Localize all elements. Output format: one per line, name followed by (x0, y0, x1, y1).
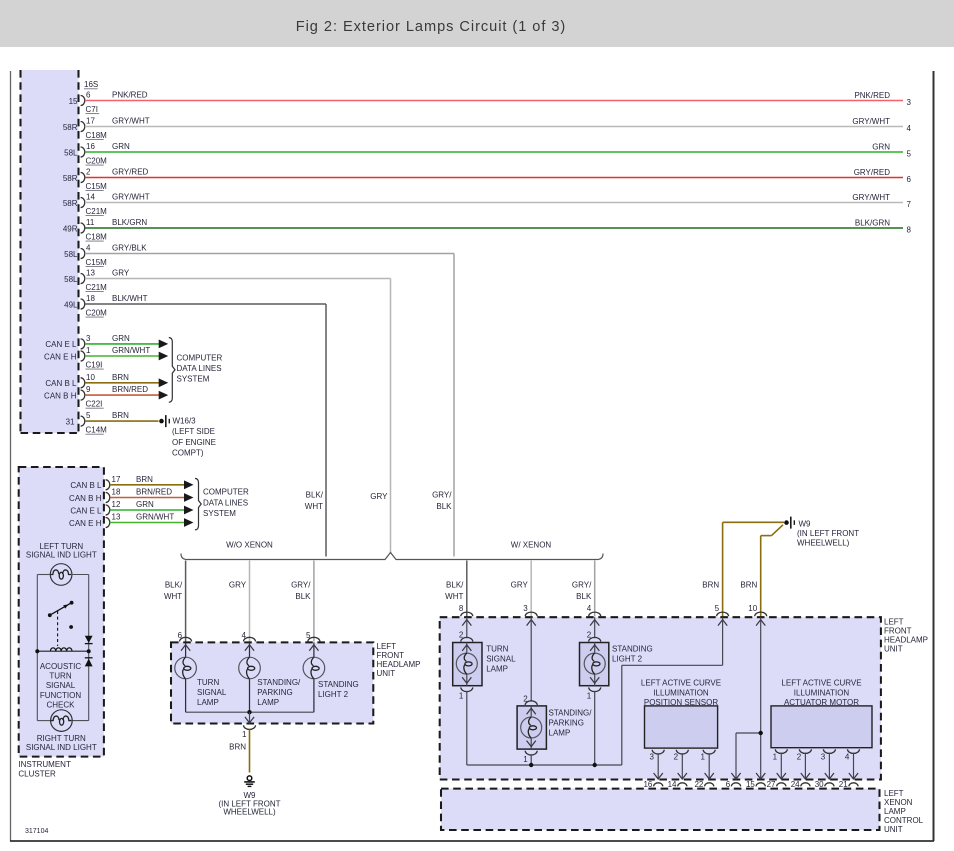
ground bus inside left headlamp (186, 711, 314, 713)
svg-text:10: 10 (748, 604, 757, 613)
svg-text:BLK: BLK (576, 592, 592, 601)
svg-text:5: 5 (306, 631, 311, 640)
svg-text:SIGNAL: SIGNAL (46, 681, 76, 690)
svg-text:GRY/: GRY/ (291, 581, 311, 590)
wire BRN pin 10 node CAN B L (45, 373, 168, 388)
wire PNK/RED pin 6 (15) connector C7I (69, 90, 912, 114)
svg-text:49R: 49R (63, 224, 78, 233)
diode D2 (85, 658, 93, 667)
svg-text:14: 14 (86, 192, 95, 201)
svg-text:CLUSTER: CLUSTER (18, 769, 56, 778)
svg-text:GRN: GRN (136, 500, 154, 509)
svg-text:17: 17 (86, 116, 95, 125)
actuator motor pin 3 wire (821, 749, 836, 779)
pin 10 of xenon headlamp unit (748, 604, 766, 626)
svg-text:LAMP: LAMP (257, 698, 279, 707)
pin 4 of xenon headlamp unit (587, 604, 601, 626)
svg-text:2: 2 (587, 630, 592, 639)
svg-text:GRN: GRN (112, 142, 130, 151)
pin 5 of left headlamp unit (306, 631, 320, 642)
svg-text:TURN: TURN (486, 645, 508, 654)
svg-text:6: 6 (86, 90, 91, 99)
position sensor pin 1 wire (701, 750, 716, 780)
pin 3 of xenon headlamp unit (523, 604, 537, 626)
wire GRY/BLK vertical drop to xenon split (432, 254, 454, 557)
svg-text:GRY/WHT: GRY/WHT (112, 116, 150, 125)
svg-text:13: 13 (86, 268, 95, 277)
connector 16S label (84, 80, 98, 89)
turn signal lamp (xenon headlamp) (453, 617, 516, 701)
svg-text:BLK: BLK (295, 592, 311, 601)
svg-text:ILLUMINATION: ILLUMINATION (653, 689, 709, 698)
svg-text:CONTROL: CONTROL (884, 816, 924, 825)
svg-text:C7I: C7I (86, 105, 98, 114)
svg-text:58R: 58R (63, 174, 78, 183)
svg-text:SIGNAL IND LIGHT: SIGNAL IND LIGHT (26, 743, 97, 752)
svg-text:GRY/: GRY/ (572, 581, 592, 590)
xenon control unit pin 14 (668, 780, 687, 789)
svg-text:XENON: XENON (884, 798, 913, 807)
xenon control unit pin 30 (815, 780, 834, 789)
svg-text:LEFT: LEFT (884, 789, 904, 798)
svg-text:STANDING: STANDING (612, 645, 653, 654)
svg-text:C15M: C15M (86, 258, 108, 267)
junction (593, 763, 597, 767)
svg-text:WHT: WHT (164, 592, 182, 601)
cluster wire GRN pin 12 node CAN E L (70, 500, 193, 515)
svg-text:C14M: C14M (86, 426, 108, 435)
wire GRY/WHT pin 14 (58R) connector C21M (63, 192, 912, 216)
svg-text:16: 16 (86, 142, 95, 151)
svg-text:INSTRUMENT: INSTRUMENT (18, 760, 71, 769)
svg-text:3: 3 (650, 752, 655, 761)
lamp labels (left headlamp) (197, 678, 359, 707)
svg-text:16S: 16S (84, 80, 98, 89)
svg-text:PARKING: PARKING (549, 719, 584, 728)
junction (529, 763, 533, 767)
svg-text:LIGHT 2: LIGHT 2 (318, 690, 349, 699)
svg-text:BLK/WHT: BLK/WHT (112, 294, 148, 303)
svg-text:COMPUTER: COMPUTER (177, 354, 223, 363)
svg-text:WHEELWELL): WHEELWELL) (797, 539, 850, 548)
pin 1 of left headlamp unit (242, 712, 255, 739)
svg-text:FRONT: FRONT (884, 626, 912, 635)
svg-text:C20M: C20M (86, 156, 108, 165)
wire GRY/WHT pin 17 (58R) connector C18M (63, 116, 912, 140)
svg-text:DATA LINES: DATA LINES (177, 364, 222, 373)
svg-text:LIGHT 2: LIGHT 2 (612, 654, 643, 663)
standing/parking lamp (xenon headlamp) (517, 617, 592, 764)
svg-text:1: 1 (701, 752, 706, 761)
ground point W16/3 (159, 415, 216, 457)
left xenon lamp control unit body (441, 789, 924, 835)
svg-text:BLK/GRN: BLK/GRN (855, 218, 890, 227)
cluster internal circuit wires (37, 575, 88, 721)
wire GRY pin 13 (58L) connector C21M (64, 268, 390, 292)
actuator motor pin 1 wire (773, 749, 788, 779)
svg-text:17: 17 (112, 475, 121, 484)
svg-text:GRN: GRN (112, 334, 130, 343)
standing light 2 (left headlamp, w/o xenon) (303, 642, 325, 712)
svg-text:58R: 58R (63, 199, 78, 208)
position sensor pin 2 wire (674, 750, 689, 780)
svg-text:BLK: BLK (436, 502, 452, 511)
turn signal switch (48, 601, 74, 646)
wire from turn signal lamp to ground bus (466, 691, 468, 765)
svg-text:FUNCTION: FUNCTION (40, 691, 82, 700)
svg-text:9: 9 (86, 385, 91, 394)
svg-text:3: 3 (821, 752, 826, 761)
svg-text:GRY/WHT: GRY/WHT (852, 193, 890, 202)
wire GRY/BLK to left headlamp (w/o xenon) (291, 561, 314, 642)
svg-text:UNIT: UNIT (884, 825, 903, 834)
wire BLK/WHT to left headlamp (w/o xenon) (164, 561, 186, 642)
svg-text:5: 5 (715, 604, 720, 613)
svg-text:2: 2 (674, 752, 679, 761)
svg-text:LEFT: LEFT (884, 617, 904, 626)
wire BLK/WHT pin 18 (49L) connector C20M (64, 294, 326, 318)
xenon control unit pin 24 (791, 780, 810, 789)
svg-text:2: 2 (86, 167, 91, 176)
svg-text:TURN: TURN (49, 672, 71, 681)
right turn signal indicator lamp (26, 710, 97, 752)
svg-text:1: 1 (86, 346, 91, 355)
svg-text:LAMP: LAMP (884, 807, 906, 816)
svg-text:CAN E H: CAN E H (69, 519, 102, 528)
wire GRY to xenon headlamp (w/ xenon) (511, 561, 532, 617)
svg-text:LEFT TURN: LEFT TURN (39, 542, 83, 551)
svg-text:W9: W9 (799, 519, 812, 528)
svg-text:FRONT: FRONT (377, 651, 405, 660)
cluster wire BRN/RED pin 18 node CAN B H (69, 488, 193, 503)
svg-text:CAN E H: CAN E H (44, 352, 77, 361)
svg-text:GRY: GRY (370, 492, 388, 501)
svg-text:1: 1 (242, 730, 247, 739)
left front headlamp unit body (w/o xenon) (171, 642, 421, 724)
svg-text:CAN B L: CAN B L (70, 481, 102, 490)
left active curve illumination actuator motor (771, 679, 872, 748)
position sensor pin 3 wire (650, 750, 665, 780)
junction (247, 710, 251, 714)
svg-text:2: 2 (523, 694, 528, 703)
svg-text:BRN: BRN (229, 742, 246, 751)
left front headlamp unit body (w/ xenon) (440, 617, 928, 779)
svg-text:3: 3 (523, 604, 528, 613)
svg-text:BRN/RED: BRN/RED (112, 385, 148, 394)
svg-text:6: 6 (907, 175, 912, 184)
wire BRN to ground W9 (229, 730, 249, 773)
instrument cluster body (18, 467, 103, 778)
svg-text:GRY/BLK: GRY/BLK (112, 243, 147, 252)
svg-text:LEFT: LEFT (377, 642, 397, 651)
svg-text:7: 7 (907, 200, 912, 209)
svg-text:SYSTEM: SYSTEM (177, 374, 210, 383)
wire GRN/WHT pin 1 node CAN E H (44, 346, 168, 369)
svg-text:58R: 58R (63, 123, 78, 132)
svg-text:WHEELWELL): WHEELWELL) (223, 807, 276, 816)
svg-text:BLK/: BLK/ (165, 581, 183, 590)
svg-text:5: 5 (907, 149, 912, 158)
ground symbol W9 (in left front wheelwell) (218, 776, 280, 817)
junction (759, 731, 763, 735)
svg-text:BLK/GRN: BLK/GRN (112, 218, 147, 227)
svg-text:COMPUTER: COMPUTER (203, 488, 249, 497)
svg-text:3: 3 (907, 98, 912, 107)
relay coil (acoustic check) (35, 648, 90, 710)
xenon control unit pin 22 (694, 780, 713, 789)
svg-text:C21M: C21M (86, 207, 108, 216)
svg-text:POSITION SENSOR: POSITION SENSOR (644, 698, 718, 707)
wire from standing light 2 to ground bus (594, 691, 596, 765)
svg-text:LAMP: LAMP (549, 728, 571, 737)
svg-text:1: 1 (773, 752, 778, 761)
cluster wire GRN/WHT pin 13 node CAN E H (69, 513, 193, 528)
svg-text:GRN: GRN (872, 142, 890, 151)
svg-text:LAMP: LAMP (197, 698, 219, 707)
actuator motor pin 2 wire (797, 749, 812, 779)
svg-text:COMPT): COMPT) (172, 448, 204, 457)
svg-text:HEADLAMP: HEADLAMP (377, 660, 421, 669)
svg-text:CAN B H: CAN B H (69, 494, 102, 503)
wire GRY/BLK to xenon headlamp (w/ xenon) (572, 561, 595, 617)
svg-text:SIGNAL: SIGNAL (197, 688, 227, 697)
svg-text:CAN B H: CAN B H (44, 391, 77, 400)
svg-text:C21M: C21M (86, 283, 108, 292)
standing light 2 (xenon headlamp) (580, 617, 653, 701)
svg-text:GRY/RED: GRY/RED (112, 167, 149, 176)
computer data lines brace (cluster) (195, 478, 249, 529)
wire GRY/BLK pin 4 (58L) connector C15M (64, 243, 454, 267)
xenon control unit pin 16 (643, 780, 662, 789)
wire from standing/parking lamp to ground bus (530, 754, 532, 765)
xenon option split bracket (181, 540, 603, 559)
svg-text:C15M: C15M (86, 182, 108, 191)
svg-text:1: 1 (523, 755, 528, 764)
svg-text:GRY/: GRY/ (432, 491, 452, 500)
left turn signal indicator lamp (26, 542, 97, 586)
svg-text:SIGNAL IND LIGHT: SIGNAL IND LIGHT (26, 551, 97, 560)
svg-text:18: 18 (112, 488, 121, 497)
actuator motor pin 4 wire (845, 749, 860, 779)
svg-text:BRN: BRN (740, 581, 757, 590)
wire GRY vertical drop to xenon split (370, 279, 390, 554)
connector block (fuse/relay module) body (21, 70, 79, 433)
wire GRY to left headlamp (w/o xenon) (229, 561, 250, 642)
svg-text:C20M: C20M (86, 308, 108, 317)
svg-text:OF ENGINE: OF ENGINE (172, 438, 216, 447)
xenon control unit pin 27 (767, 780, 786, 789)
svg-text:18: 18 (86, 294, 95, 303)
svg-text:STANDING: STANDING (318, 680, 359, 689)
svg-text:C22I: C22I (86, 400, 103, 409)
svg-text:5: 5 (86, 411, 91, 420)
wire GRN pin 3 node CAN E L (45, 334, 168, 349)
svg-text:1: 1 (587, 692, 592, 701)
svg-text:ACOUSTIC: ACOUSTIC (40, 662, 82, 671)
svg-text:C19I: C19I (86, 360, 103, 369)
svg-text:317104: 317104 (25, 828, 48, 835)
svg-text:BLK/: BLK/ (446, 581, 464, 590)
svg-text:GRY: GRY (112, 268, 130, 277)
pin 6 of left headlamp unit (178, 631, 192, 642)
svg-text:58L: 58L (64, 148, 78, 157)
svg-text:31: 31 (66, 417, 75, 426)
svg-text:BRN/RED: BRN/RED (136, 488, 172, 497)
svg-text:STANDING/: STANDING/ (549, 709, 593, 718)
wire BRN pin 5 to ground W9 (702, 522, 784, 616)
svg-text:PARKING: PARKING (257, 688, 292, 697)
svg-text:SYSTEM: SYSTEM (203, 509, 236, 518)
svg-text:BLK/: BLK/ (306, 491, 324, 500)
svg-text:4: 4 (907, 124, 912, 133)
wire BLK/GRN pin 11 (49R) connector C18M (63, 218, 912, 242)
svg-text:ACTUATOR MOTOR: ACTUATOR MOTOR (784, 698, 859, 707)
cluster wire BRN pin 17 node CAN B L (70, 475, 193, 490)
svg-text:C18M: C18M (86, 131, 108, 140)
svg-text:W/O XENON: W/O XENON (226, 540, 273, 549)
svg-text:TURN: TURN (197, 678, 219, 687)
svg-text:Fig 2: Exterior Lamps Circuit: Fig 2: Exterior Lamps Circuit (1 of 3) (296, 19, 566, 35)
svg-text:CAN E L: CAN E L (70, 506, 102, 515)
svg-text:WHT: WHT (305, 502, 323, 511)
svg-text:2: 2 (459, 630, 464, 639)
xenon control unit pin 6 (726, 780, 741, 789)
svg-text:UNIT: UNIT (377, 669, 396, 678)
wire BLK/WHT to xenon headlamp (w/ xenon) (445, 561, 467, 617)
svg-text:8: 8 (459, 604, 464, 613)
xenon control unit pin 21 (839, 780, 858, 789)
svg-text:58L: 58L (64, 275, 78, 284)
svg-text:CAN E L: CAN E L (45, 340, 77, 349)
svg-text:3: 3 (86, 334, 91, 343)
svg-text:CAN B L: CAN B L (45, 379, 77, 388)
svg-text:SIGNAL: SIGNAL (486, 654, 516, 663)
wire GRY/RED pin 2 (58R) connector C15M (63, 167, 912, 191)
svg-text:UNIT: UNIT (884, 644, 903, 653)
turn signal lamp (left headlamp, w/o xenon) (175, 642, 197, 712)
wire BRN pin 5 terminal 31 connector C14M (66, 411, 159, 434)
svg-text:BRN: BRN (702, 581, 719, 590)
svg-text:GRY: GRY (511, 581, 529, 590)
svg-text:C18M: C18M (86, 232, 108, 241)
svg-text:GRY/WHT: GRY/WHT (852, 117, 890, 126)
svg-text:GRN/WHT: GRN/WHT (112, 346, 150, 355)
wire pin 10 to bottom pins 6 and 15 (731, 617, 765, 779)
svg-text:ILLUMINATION: ILLUMINATION (794, 689, 850, 698)
svg-text:6: 6 (178, 631, 183, 640)
computer data lines brace (upper) (169, 338, 223, 403)
svg-text:STANDING/: STANDING/ (257, 678, 301, 687)
svg-text:58L: 58L (64, 250, 78, 259)
svg-text:BRN: BRN (136, 475, 153, 484)
svg-text:W16/3: W16/3 (173, 417, 197, 426)
svg-text:BRN: BRN (112, 411, 129, 420)
svg-text:WHT: WHT (445, 592, 463, 601)
xenon control unit pin 15 (746, 780, 765, 789)
svg-text:12: 12 (112, 500, 121, 509)
wire BRN pin 10 to ground W9 (740, 525, 783, 617)
svg-text:15: 15 (69, 97, 78, 106)
ground point W9 (in left front wheelwell) (784, 517, 859, 548)
svg-text:GRY/RED: GRY/RED (854, 168, 891, 177)
svg-text:13: 13 (112, 513, 121, 522)
svg-text:HEADLAMP: HEADLAMP (884, 635, 928, 644)
svg-text:PNK/RED: PNK/RED (854, 91, 890, 100)
svg-text:CHECK: CHECK (46, 700, 75, 709)
svg-text:LEFT ACTIVE CURVE: LEFT ACTIVE CURVE (641, 679, 721, 688)
ground bus inside xenon headlamp to pin 5 (467, 617, 723, 765)
svg-text:GRY: GRY (229, 581, 247, 590)
svg-text:PNK/RED: PNK/RED (112, 90, 148, 99)
svg-text:49L: 49L (64, 300, 78, 309)
wire BLK/WHT vertical drop to xenon split (305, 304, 326, 557)
svg-text:2: 2 (797, 752, 802, 761)
svg-text:GRN/WHT: GRN/WHT (136, 513, 174, 522)
svg-text:4: 4 (86, 243, 91, 252)
svg-text:4: 4 (587, 604, 592, 613)
svg-text:LEFT ACTIVE CURVE: LEFT ACTIVE CURVE (781, 679, 861, 688)
svg-text:W/ XENON: W/ XENON (511, 540, 552, 549)
left active curve illumination position sensor (641, 679, 721, 748)
svg-text:1: 1 (459, 692, 464, 701)
wire GRN pin 16 (58L) connector C20M (64, 142, 911, 166)
svg-text:LAMP: LAMP (486, 664, 508, 673)
svg-text:(LEFT SIDE: (LEFT SIDE (172, 427, 215, 436)
svg-text:11: 11 (86, 218, 95, 227)
pin 8 of xenon headlamp unit (459, 604, 473, 626)
wire BRN/RED pin 9 node CAN B H (44, 385, 168, 408)
diode D1 (85, 636, 93, 644)
svg-text:RIGHT TURN: RIGHT TURN (37, 734, 86, 743)
pin 4 of left headlamp unit (242, 631, 256, 642)
title bar (0, 0, 954, 47)
svg-text:4: 4 (242, 631, 247, 640)
svg-text:8: 8 (907, 225, 912, 234)
svg-text:DATA LINES: DATA LINES (203, 498, 248, 507)
svg-text:GRY/WHT: GRY/WHT (112, 192, 150, 201)
svg-text:(IN LEFT FRONT: (IN LEFT FRONT (797, 529, 859, 538)
svg-text:10: 10 (86, 373, 95, 382)
svg-text:BRN: BRN (112, 373, 129, 382)
pin 5 of xenon headlamp unit (715, 604, 729, 626)
standing/parking lamp (left headlamp, w/o xenon) (239, 642, 261, 712)
svg-text:4: 4 (845, 752, 850, 761)
